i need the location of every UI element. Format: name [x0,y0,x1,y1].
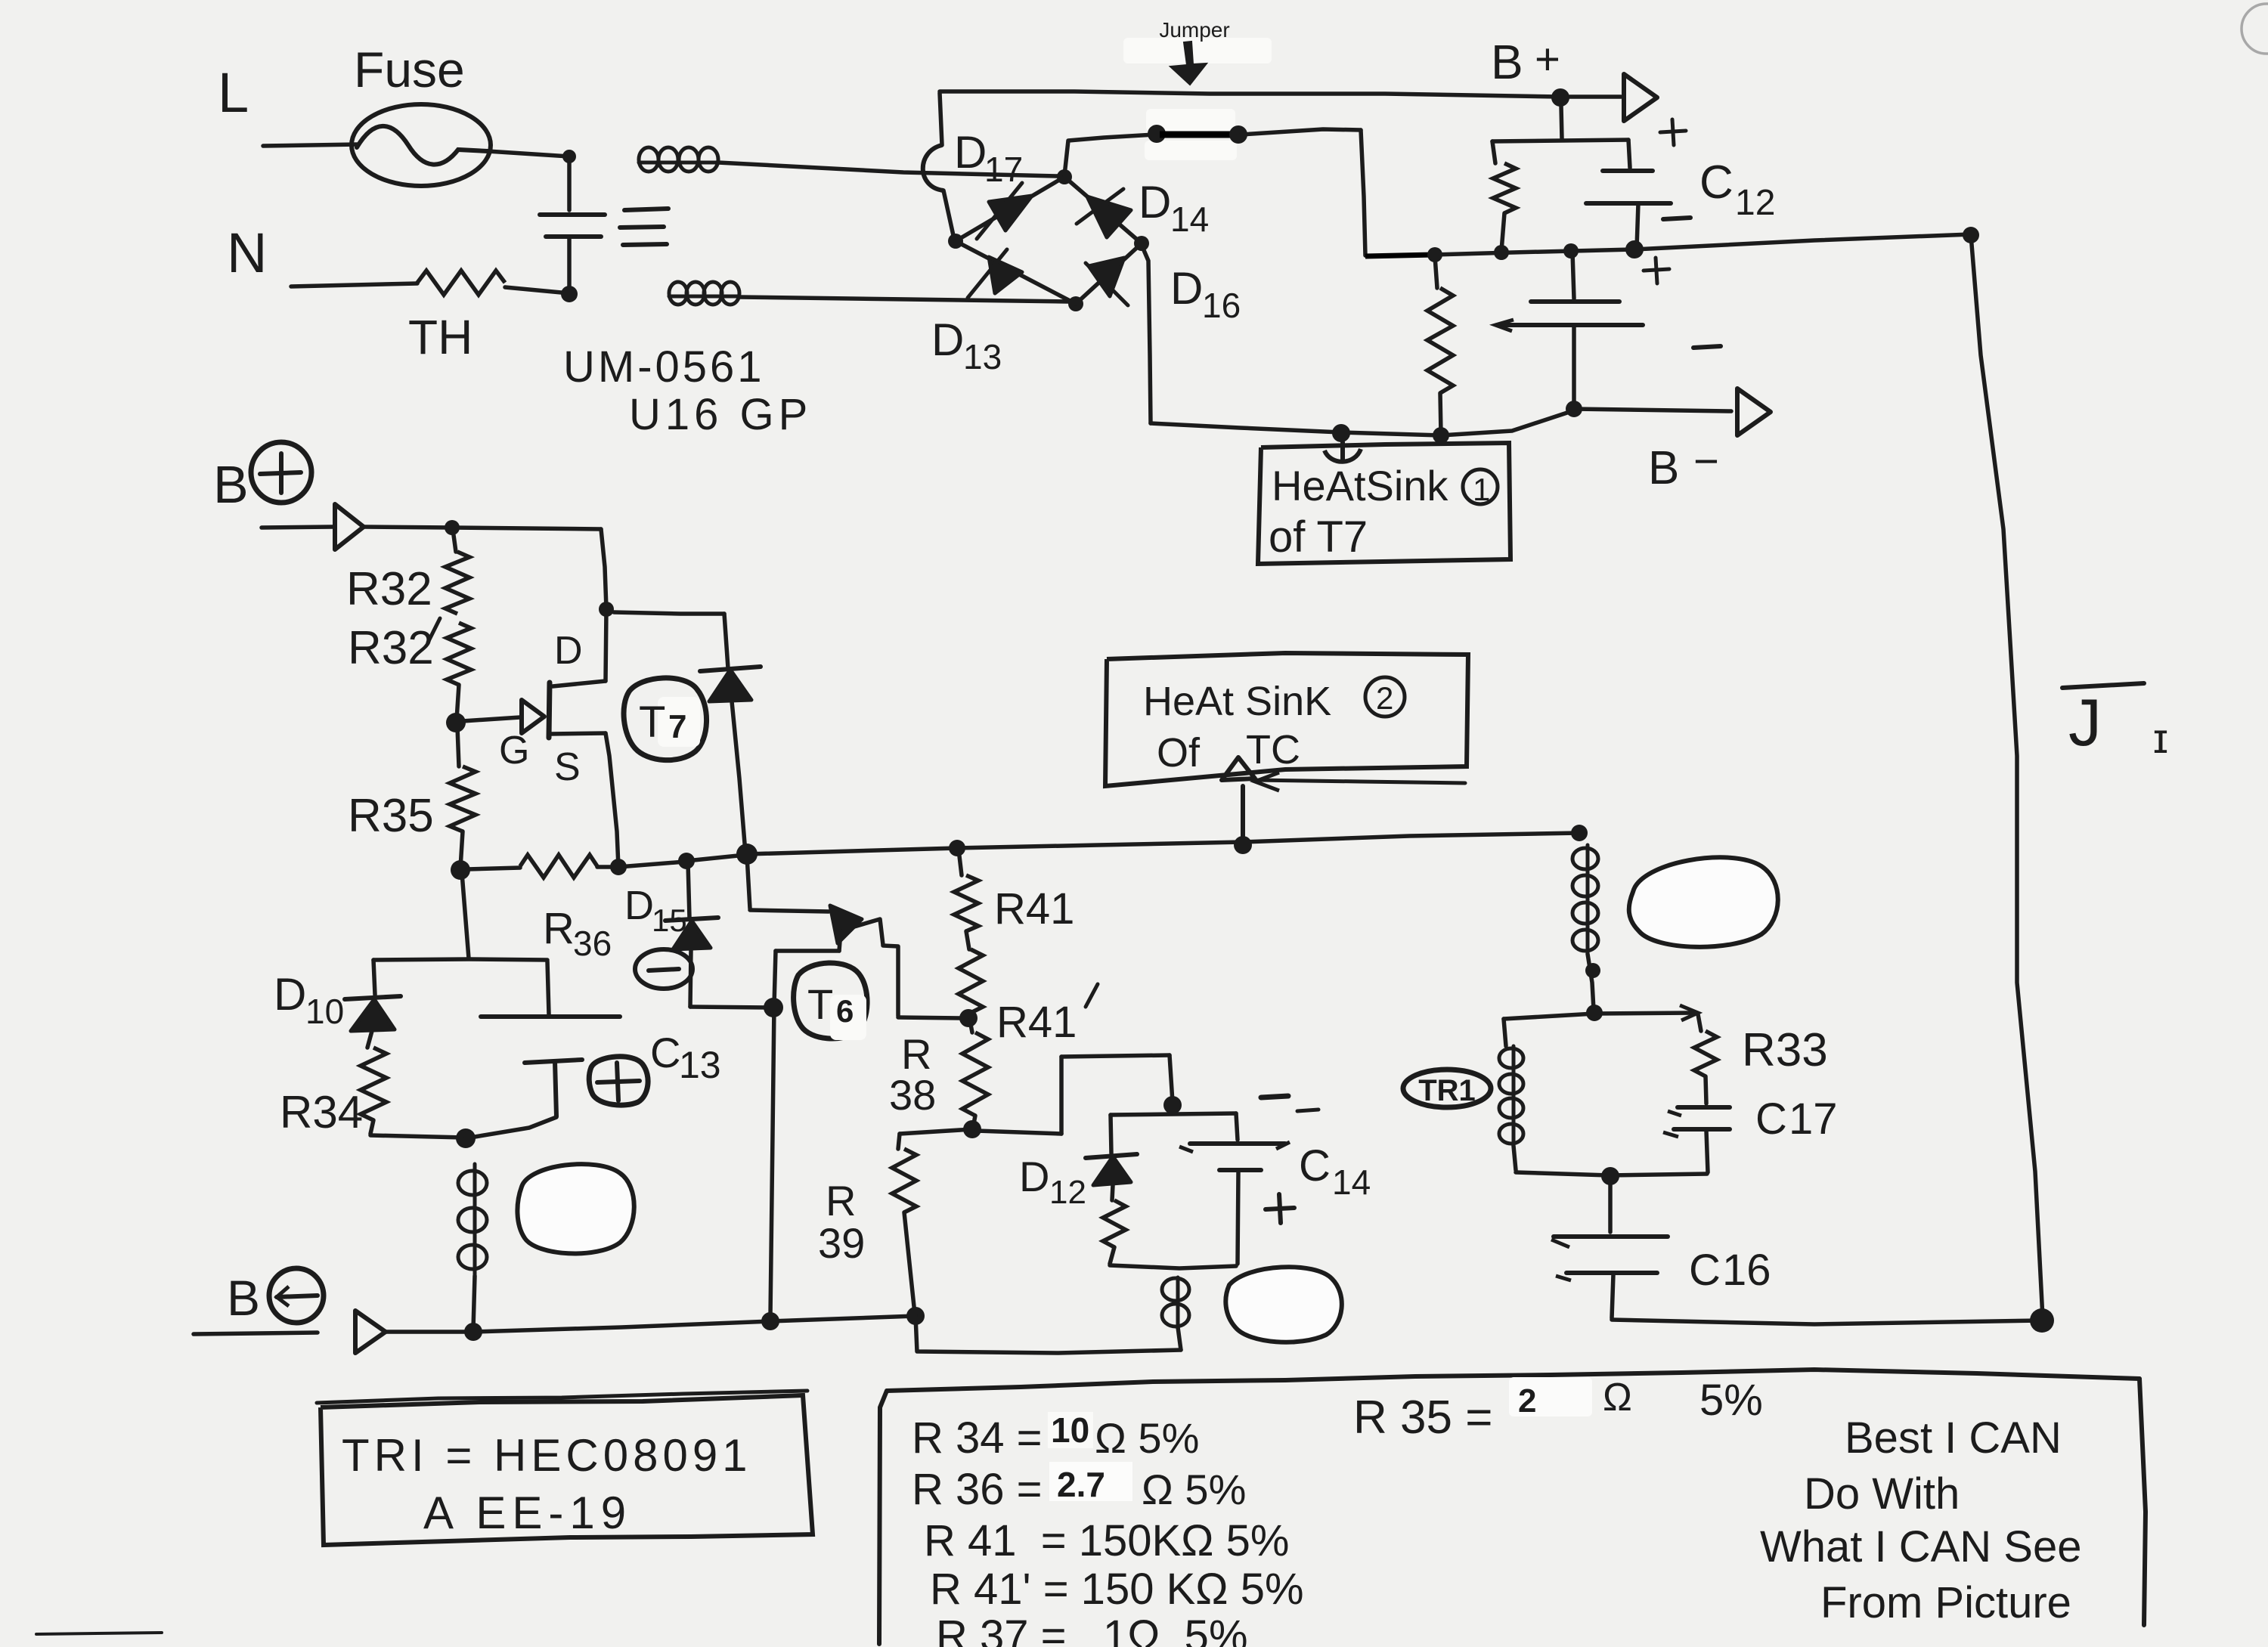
node bridge top [1057,169,1072,184]
svg-text:ɪ: ɪ [2153,714,2168,762]
wire right riser [1361,130,1365,255]
capacitor reservoir plus sign [1644,258,1669,283]
svg-text:B: B [213,455,249,514]
heatsink2 text [1143,677,1405,776]
diode D14 [1064,177,1142,243]
wire R34 bottom bar [370,1135,464,1138]
svg-text:R41: R41 [994,884,1074,933]
node R32 top [445,520,460,535]
svg-text:C: C [1699,156,1734,209]
wire B+ down to RC [1561,106,1562,139]
resistor R41p [959,949,983,1017]
wire bridge right drop [1142,245,1151,423]
node B- junction [1566,401,1582,417]
capacitor C17 label [1755,1094,1838,1144]
node junction N-cap [561,286,578,302]
resistor lower bleeder [1427,256,1453,434]
svg-text:C: C [1755,1094,1787,1144]
svg-text:36: 36 [573,924,612,963]
svg-text:Jumper: Jumper [1159,18,1229,42]
node coil on B- rail [464,1323,482,1341]
wire rail to D10 tee [462,873,469,958]
core symbol (three bars) [620,209,668,245]
svg-text:14: 14 [1170,200,1209,239]
wire box left riser [1059,1057,1064,1134]
wire TR1 top bar [1504,1005,1698,1020]
svg-text:R: R [826,1177,856,1224]
node TR1 mid [1586,1005,1603,1021]
svg-text:From Picture: From Picture [1820,1578,2071,1627]
svg-text:5%: 5% [1699,1376,1763,1425]
capacitor reservoir minus sign [1693,346,1721,348]
diode D14 label [1139,177,1209,239]
svg-text:D: D [624,883,654,928]
wire C16 bottom to J1 [1612,1320,2041,1324]
svg-text:D: D [1139,177,1171,228]
note TR1 text 2 [423,1488,632,1538]
svg-text:R 41 = 150KΩ 5%: R 41 = 150KΩ 5% [924,1516,1289,1565]
node R41 top [949,840,965,856]
heatsink1 down arrow [1325,442,1361,462]
resistor R41 label [994,884,1074,933]
svg-text:13: 13 [963,337,1002,376]
resistor bleeder (B+) [1492,141,1516,251]
node N label [227,221,267,284]
wire box top drop [1170,1055,1173,1102]
whiteout patch T6 [830,995,866,1040]
whiteout patch R34 value [1048,1412,1093,1448]
label B- (left) [227,1268,324,1326]
svg-text:2.7: 2.7 [1057,1465,1105,1504]
wire fuse to node [488,151,569,156]
capacitor C14 minus sign [1261,1096,1318,1111]
svg-text:12: 12 [1735,183,1775,223]
transformer TR1 secondary coil [1499,1019,1523,1170]
line filter part number [563,342,765,392]
svg-text:HeAt SinK: HeAt SinK [1143,679,1331,724]
whiteout oval left [517,1164,634,1253]
label J1 [2062,683,2168,762]
svg-text:1: 1 [1473,472,1490,507]
svg-text:B: B [227,1270,260,1326]
wire L input [263,144,358,146]
node J1 bottom junction [2030,1308,2054,1333]
diode D15 label [624,883,687,938]
resistor R35 label [348,790,434,842]
transistor T7 source lead [550,733,618,867]
diode D12 [1086,1115,1137,1200]
node jumper right [1229,125,1247,144]
jumper label (typed) [1159,18,1229,42]
transistor T7 label [639,698,686,747]
resistor R32p label [348,618,440,674]
wire top rail from bridge [940,91,1560,97]
svg-text:16: 16 [1202,286,1241,325]
capacitor C14 label [1299,1141,1371,1202]
wire R38 junction to R39 [900,1129,972,1134]
whiteout oval right [1629,857,1778,947]
svg-text:7: 7 [668,708,686,745]
svg-text:14: 14 [1332,1162,1371,1202]
svg-text:N: N [227,221,267,284]
svg-text:B: B [1491,35,1523,89]
svg-text:Ω 5%: Ω 5% [1142,1466,1246,1513]
note best-i-can 1 [1845,1413,2062,1463]
svg-text:TR1: TR1 [1418,1074,1476,1107]
wire lower rail (D16 to B-) [1151,410,1574,435]
node cap2 on rail [1563,243,1579,259]
wire bridge to jumper [1064,135,1155,175]
svg-text:R 37 = 1Ω 5%: R 37 = 1Ω 5% [936,1611,1248,1647]
node T6 emitter on B- rail [761,1312,779,1330]
node L input label [218,61,249,124]
node TR1 center tap blob [1585,963,1600,978]
wire B+ left input [262,527,333,528]
wire B- rail left [194,1333,318,1334]
inductor line-filter top coil [639,147,718,172]
resistor R41 [954,850,978,949]
transistor T6 label [807,980,854,1029]
heatsink2 arrow [1222,757,1465,845]
diode D16 label [1170,263,1241,325]
fuse F1 [352,104,491,186]
capacitor C16 [1551,1178,1668,1318]
wire rail E [1242,833,1579,842]
wire D12 box top bar [1111,1113,1236,1115]
svg-text:U16 GP: U16 GP [629,390,812,439]
wire rail A [618,862,685,867]
diode D12 label [1019,1153,1086,1211]
svg-text:T: T [639,698,665,747]
svg-text:TC: TC [1246,727,1300,772]
transistor T6 emitter path [770,931,841,1316]
svg-text:2: 2 [1376,680,1393,716]
svg-text:R 41ʹ = 150 KΩ 5%: R 41ʹ = 150 KΩ 5% [930,1565,1304,1614]
transformer TR1 designator [1403,1070,1491,1107]
capacitor C13 label [650,1029,721,1086]
wire rail D [957,842,1242,848]
note best-i-can 3 [1760,1522,2081,1571]
svg-text:D: D [554,629,583,673]
node T6 base-D15 [764,998,783,1017]
svg-text:T: T [807,980,833,1028]
wire jumper to right riser [1241,129,1361,135]
svg-text:Do With: Do With [1804,1469,1960,1519]
arrow gate [522,700,544,733]
capacitor line filter [540,158,605,292]
svg-text:39: 39 [818,1219,865,1267]
capacitor C14 plus sign [1266,1194,1294,1223]
note box R-values outline [879,1370,2146,1644]
diode T7 clamp [614,612,761,853]
jumper down arrow [1170,42,1207,85]
svg-text:B: B [1648,442,1679,494]
stray mark bottom left [36,1633,162,1634]
svg-text:HeAtSink: HeAtSink [1272,462,1448,509]
node R41-R38 [959,1009,978,1027]
svg-text:R32: R32 [346,563,432,615]
thermistor TH [417,271,505,295]
capacitor C13 [481,961,620,1116]
note best-i-can 2 [1804,1469,1960,1519]
svg-text:C: C [1299,1141,1331,1190]
svg-text:TH: TH [408,310,472,364]
wire D12 box bottom [1110,1265,1236,1268]
svg-text:13: 13 [679,1044,721,1086]
node D15 top [678,853,695,869]
svg-text:16: 16 [1722,1246,1771,1295]
wire bottom bar to C13 stem [466,1117,556,1138]
node bleeder bottom [1433,427,1449,444]
svg-text:R 35 =: R 35 = [1353,1392,1492,1444]
wire gate lead [463,717,520,721]
capacitor C16 label [1689,1246,1771,1295]
svg-text:R35: R35 [348,790,434,842]
note TR1 text [342,1430,752,1481]
node R39 bottom [906,1307,925,1325]
arrow B+ left [335,504,364,550]
thermistor TH label [408,310,472,364]
diode D13 label [931,314,1002,376]
note R41p value [930,1565,1304,1614]
transistor T7 circle [624,678,707,760]
node TR1 top [1571,825,1588,841]
label G (gate) [499,729,529,772]
capacitor C12 label [1699,156,1775,223]
circled plus (C13) [589,1057,648,1105]
svg-text:Fuse: Fuse [354,42,465,98]
capacitor C12 plus sign [1660,119,1686,145]
diode D13 [956,241,1076,304]
resistor R39 [892,1134,916,1314]
svg-text:D: D [954,127,987,178]
svg-text:R 36 =: R 36 = [912,1465,1043,1514]
wire D10 top bar [373,959,547,960]
wire rail C [747,848,957,854]
whiteout patch R36 value [1049,1462,1132,1501]
label B- (top right) [1648,437,1719,494]
heatsink2 box [1105,653,1468,786]
wire corner down to T7 drain [601,529,606,608]
node RC left on rail [1427,247,1442,262]
transistor T7 drain lead [553,609,606,686]
heatsink1 box [1258,443,1510,564]
node bleeder on rail [1494,245,1509,260]
diode D16 [1076,243,1142,305]
capacitor C17 [1663,1107,1730,1172]
svg-text:UM-0561: UM-0561 [563,342,765,392]
wire coil to bridge (L) [718,163,1058,176]
whiteout patches jumper [1123,38,1272,160]
capacitor reservoir (B-) [1495,252,1643,407]
svg-text:L: L [218,61,249,124]
svg-text:10: 10 [305,992,344,1031]
diode D10 label [274,969,344,1031]
svg-text:C: C [650,1029,680,1076]
node C16 top [1601,1167,1619,1185]
arrow B- output [1737,389,1771,435]
wire B+ left to corner [364,527,601,529]
note best-i-can 4 [1820,1578,2071,1627]
node bridge left [948,234,963,249]
diode D10 [345,960,401,1048]
transistor T6 circle [794,963,867,1039]
resistor R33 [1694,1014,1717,1104]
svg-text:Best I CAN: Best I CAN [1845,1413,2062,1463]
resistor R37 (in D12 box) [1103,1200,1126,1264]
capacitor C12 minus sign [1663,218,1690,219]
diode D17 [956,177,1064,241]
node R38 bottom [963,1120,981,1138]
line filter part number 2 [629,390,812,439]
svg-text:R 34 =: R 34 = [912,1413,1043,1463]
node T7 source on rail [610,859,627,875]
resistor R35 [450,727,476,868]
fuse F1 label [354,42,465,98]
wire B+ arrow lead [1569,94,1621,99]
resistor R38 label [889,1030,936,1119]
svg-text:J: J [2068,685,2102,760]
wire R38 junction to box [977,1131,1061,1134]
inductor D12-box coil [1162,1277,1189,1350]
note R37 value [936,1611,1248,1647]
svg-text:C: C [1689,1246,1721,1295]
svg-text:2: 2 [1518,1382,1536,1419]
arrow B+ output [1624,74,1657,121]
svg-text:Ω 5%: Ω 5% [1095,1414,1199,1462]
transistor T6 collector path [747,856,965,1018]
svg-text:TRI = HEC08091: TRI = HEC08091 [342,1430,752,1481]
wire B- step to coil [916,1316,1181,1353]
node R34-C13-coil [456,1128,476,1148]
svg-text:D: D [931,314,964,365]
wire TH to node [505,287,569,293]
svg-text:R33: R33 [1742,1024,1828,1076]
svg-text:R32: R32 [348,622,434,674]
circled minus (C13 polarity) [635,949,692,989]
label D (drain) [554,629,583,673]
wire box top [1061,1055,1170,1057]
svg-text:D: D [274,969,306,1020]
resistor R34 label [280,1087,363,1138]
node heatsink1 junction [1332,424,1350,442]
node T6 collector junction [736,844,758,865]
svg-text:What I CAN See: What I CAN See [1760,1522,2081,1571]
svg-text:D: D [1019,1153,1049,1200]
wire TR1 bottom bar [1516,1172,1707,1175]
resistor R33 label [1742,1024,1828,1076]
note R35 value [1353,1376,1763,1444]
node junction L-cap [562,150,576,163]
transistor T7 gate bar [549,683,550,738]
node J1 corner [1963,227,1979,243]
svg-text:S: S [554,745,581,789]
wire N input [291,283,417,286]
diode D17 label [954,127,1023,189]
corner circle artifact [2242,4,2268,54]
whiteout oval center [1225,1267,1341,1342]
wire RC top bar [1492,140,1628,141]
arrow B- left [355,1311,386,1353]
svg-text:D: D [1170,263,1203,314]
note box TR1 outline [317,1391,813,1545]
node gate junction [446,713,466,732]
label B+ (left) [213,442,311,514]
node B+ junction [1551,88,1569,107]
svg-text:A EE-19: A EE-19 [423,1488,632,1538]
node D12 box top [1163,1096,1182,1114]
svg-text:−: − [1693,437,1719,486]
node C12 on rail [1625,240,1644,259]
note R34 value [912,1410,1199,1463]
inductor line-filter bottom coil [669,282,739,305]
capacitor C12 [1586,140,1671,248]
label S (source) [554,745,581,789]
svg-text:Of: Of [1157,730,1201,776]
resistor R41p label [996,984,1098,1047]
node jumper left [1148,125,1166,143]
whiteout patch R35 value [1509,1377,1592,1416]
resistor R38 [962,1020,988,1128]
node drain junction [599,602,614,617]
wire rail B [686,855,745,861]
svg-text:R: R [543,904,575,953]
resistor R32 [445,535,469,614]
wire coil to bridge (N) [739,297,1068,302]
diode D15 [665,863,770,1008]
svg-text:R41: R41 [996,998,1077,1047]
svg-text:12: 12 [1049,1174,1086,1211]
svg-text:10: 10 [1051,1410,1089,1450]
svg-text:38: 38 [889,1071,936,1119]
svg-text:R34: R34 [280,1087,363,1138]
svg-text:of T7: of T7 [1269,512,1368,562]
jumper link (solid) [1160,132,1235,138]
wire bridge B+ riser with hop [923,93,954,239]
capacitor C14 [1179,1113,1290,1264]
resistor R39 label [818,1177,865,1267]
wire mid rail to J1 [1435,234,1971,255]
note R36 value [912,1465,1246,1514]
svg-text:+: + [1535,35,1560,84]
resistor R36 [467,855,617,878]
node heatsink2 on rail [1234,836,1252,854]
svg-text:6: 6 [836,993,854,1029]
resistor R32 label [346,563,432,615]
svg-text:Ω: Ω [1603,1376,1632,1419]
wire B- rail [386,1316,916,1332]
jumper link 2 (solid) [1365,255,1433,256]
label B+ (top right) [1491,35,1560,89]
whiteout patch T7 [658,697,700,747]
heatsink1 text [1269,462,1498,562]
wire B- arrow lead [1574,409,1731,411]
transformer TR1 primary coil [1572,845,1598,1010]
note R41 value [924,1516,1289,1565]
inductor B- left coil [458,1164,487,1329]
resistor R34 [361,1048,386,1134]
svg-text:17: 17 [1789,1094,1838,1144]
svg-text:G: G [499,729,529,772]
node bridge right [1134,236,1149,251]
resistor R36 label [543,904,612,963]
resistor R32p [447,623,471,720]
node bridge bottom [1068,296,1083,311]
node rail left [451,860,470,880]
wire J1 vertical [1971,235,2043,1318]
svg-text:17: 17 [984,150,1023,189]
